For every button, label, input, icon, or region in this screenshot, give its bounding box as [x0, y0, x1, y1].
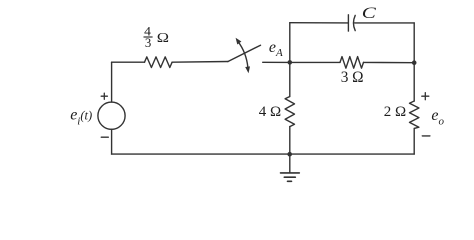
ground bars [281, 173, 300, 181]
polarity + of output eo [422, 93, 429, 100]
svg-text:eo: eo [431, 107, 444, 127]
svg-text:3 Ω: 3 Ω [341, 69, 364, 86]
node dot bottom (ground junction) [287, 152, 292, 157]
capacitor C right curved plate [353, 15, 355, 30]
svg-text:2 Ω: 2 Ω [384, 104, 406, 120]
resistor 4/3 ohm (zigzag) [145, 57, 173, 68]
node dot eA [288, 60, 293, 65]
label 4/3 fraction [144, 23, 153, 49]
wire: bottom horizontal rail [112, 153, 415, 155]
wire: left vertical from top corner down to source circle [111, 62, 113, 102]
resistor 4 ohm (vertical zigzag) [285, 97, 294, 127]
wire: 3-ohm resistor to right node [364, 61, 415, 63]
wire: top-left horizontal from source corner to resistor [112, 61, 145, 63]
switch blade [228, 45, 261, 61]
svg-text:C: C [362, 5, 376, 22]
wire: switch to node eA [263, 61, 290, 63]
capacitor C left plate [347, 15, 349, 31]
wire: vertical from top branch corner through node eA down to 4-ohm resistor [289, 23, 291, 97]
polarity - of output eo [422, 135, 430, 137]
resistor 2 ohm (vertical zigzag) [410, 101, 419, 128]
resistor 3 ohm (zigzag) [340, 57, 364, 69]
switch arrow (double-headed arc) [238, 42, 248, 68]
source ei(t) circle [98, 102, 125, 129]
node dot right (3-ohm / 2-ohm junction) [412, 60, 417, 65]
wire: middle horizontal node eA to 3-ohm resistor [290, 61, 340, 63]
wire: resistor to switch contact [172, 61, 228, 64]
svg-text:ei(t): ei(t) [70, 106, 92, 127]
wire: 2-ohm resistor to bottom right corner [413, 128, 415, 154]
polarity + of source [101, 93, 107, 99]
label ohm of 4/3 [157, 30, 169, 46]
svg-text:Ω: Ω [157, 30, 169, 46]
wire: source circle bottom to bottom rail [111, 129, 113, 154]
ground stub [289, 154, 291, 173]
capacitor branch top wire right segment [355, 22, 415, 24]
svg-text:eA: eA [269, 39, 283, 59]
svg-text:4 Ω: 4 Ω [259, 104, 281, 120]
capacitor branch top wire left segment [290, 22, 349, 24]
polarity - of source [101, 136, 108, 138]
wire: 4-ohm resistor to bottom node [289, 127, 291, 155]
svg-text:3: 3 [145, 35, 151, 50]
wire: right vertical from top branch corner to 2-ohm resistor [413, 23, 415, 101]
